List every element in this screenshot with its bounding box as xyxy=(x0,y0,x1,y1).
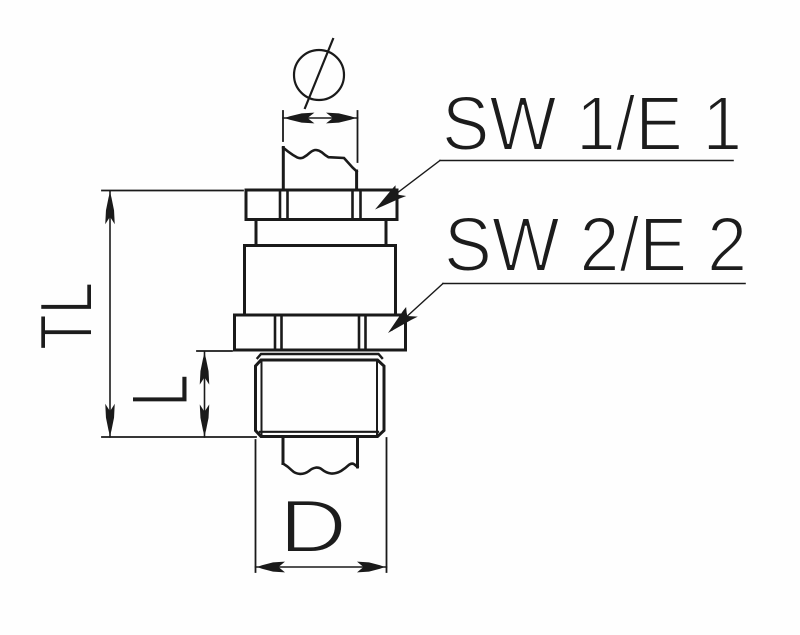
SW1 leader arrowhead xyxy=(371,184,406,216)
SW1 leader diagonal xyxy=(380,161,440,207)
top shaft left edge xyxy=(282,148,285,191)
thread core right line xyxy=(376,361,378,437)
L top arrowhead xyxy=(200,353,210,385)
hex flange SW1 outline xyxy=(246,190,397,220)
hex SW1 facet line a xyxy=(279,190,282,220)
bottom shaft left edge xyxy=(282,438,285,464)
TL bottom arrowhead xyxy=(105,404,115,436)
hex SW1 facet line d xyxy=(359,190,362,220)
diameter symbol slash xyxy=(305,39,333,108)
thread core left line xyxy=(261,361,263,437)
diameter dimension line xyxy=(283,117,358,119)
D right extension line xyxy=(386,438,388,572)
L dimension vertical line xyxy=(204,352,206,437)
top shaft right edge xyxy=(355,171,358,190)
SW2 leader underline xyxy=(443,283,745,285)
hex flange SW2 outline xyxy=(235,315,406,350)
diameter right extension line xyxy=(357,111,359,162)
D dim right arrowhead xyxy=(357,562,385,573)
hex SW2 facet line b xyxy=(280,315,283,350)
hex SW1 facet line c xyxy=(351,190,354,220)
svg-text:D: D xyxy=(279,484,347,568)
hex SW2 facet line d xyxy=(364,315,367,350)
TL top extension line xyxy=(102,190,243,192)
thread top chamfer line xyxy=(258,354,383,358)
TL top arrowhead xyxy=(105,192,115,224)
neck section xyxy=(256,220,386,246)
bottom shaft wavy break line xyxy=(283,464,358,474)
hex SW2 facet line a xyxy=(274,315,277,350)
SW2 leader diagonal xyxy=(392,284,443,331)
hex SW1 facet line b xyxy=(286,190,289,220)
SW2 leader arrowhead xyxy=(383,306,417,339)
D dimension line xyxy=(256,566,387,568)
svg-text:TL: TL xyxy=(24,282,108,350)
L top extension line xyxy=(197,350,232,352)
diameter left extension line xyxy=(282,111,284,141)
SW1 leader underline xyxy=(440,160,733,162)
thread bottom chamfer line xyxy=(260,431,378,433)
diameter dim right arrowhead xyxy=(326,113,356,124)
D dim left arrowhead xyxy=(257,562,285,573)
top shaft wavy break line xyxy=(283,148,356,172)
diameter symbol circle xyxy=(294,50,344,100)
L bottom arrowhead xyxy=(200,404,210,436)
thread outer profile xyxy=(256,360,385,437)
diameter dim left arrowhead xyxy=(285,113,315,124)
D left extension line xyxy=(255,440,257,572)
hex SW2 facet line c xyxy=(358,315,361,350)
svg-text:SW 1/E 1: SW 1/E 1 xyxy=(442,81,742,167)
body section xyxy=(245,246,396,316)
TL bottom extension line xyxy=(102,436,256,438)
svg-text:SW 2/E 2: SW 2/E 2 xyxy=(444,202,747,288)
svg-text:L: L xyxy=(116,374,206,407)
TL dimension vertical line xyxy=(109,191,111,437)
bottom shaft right edge xyxy=(356,438,359,467)
